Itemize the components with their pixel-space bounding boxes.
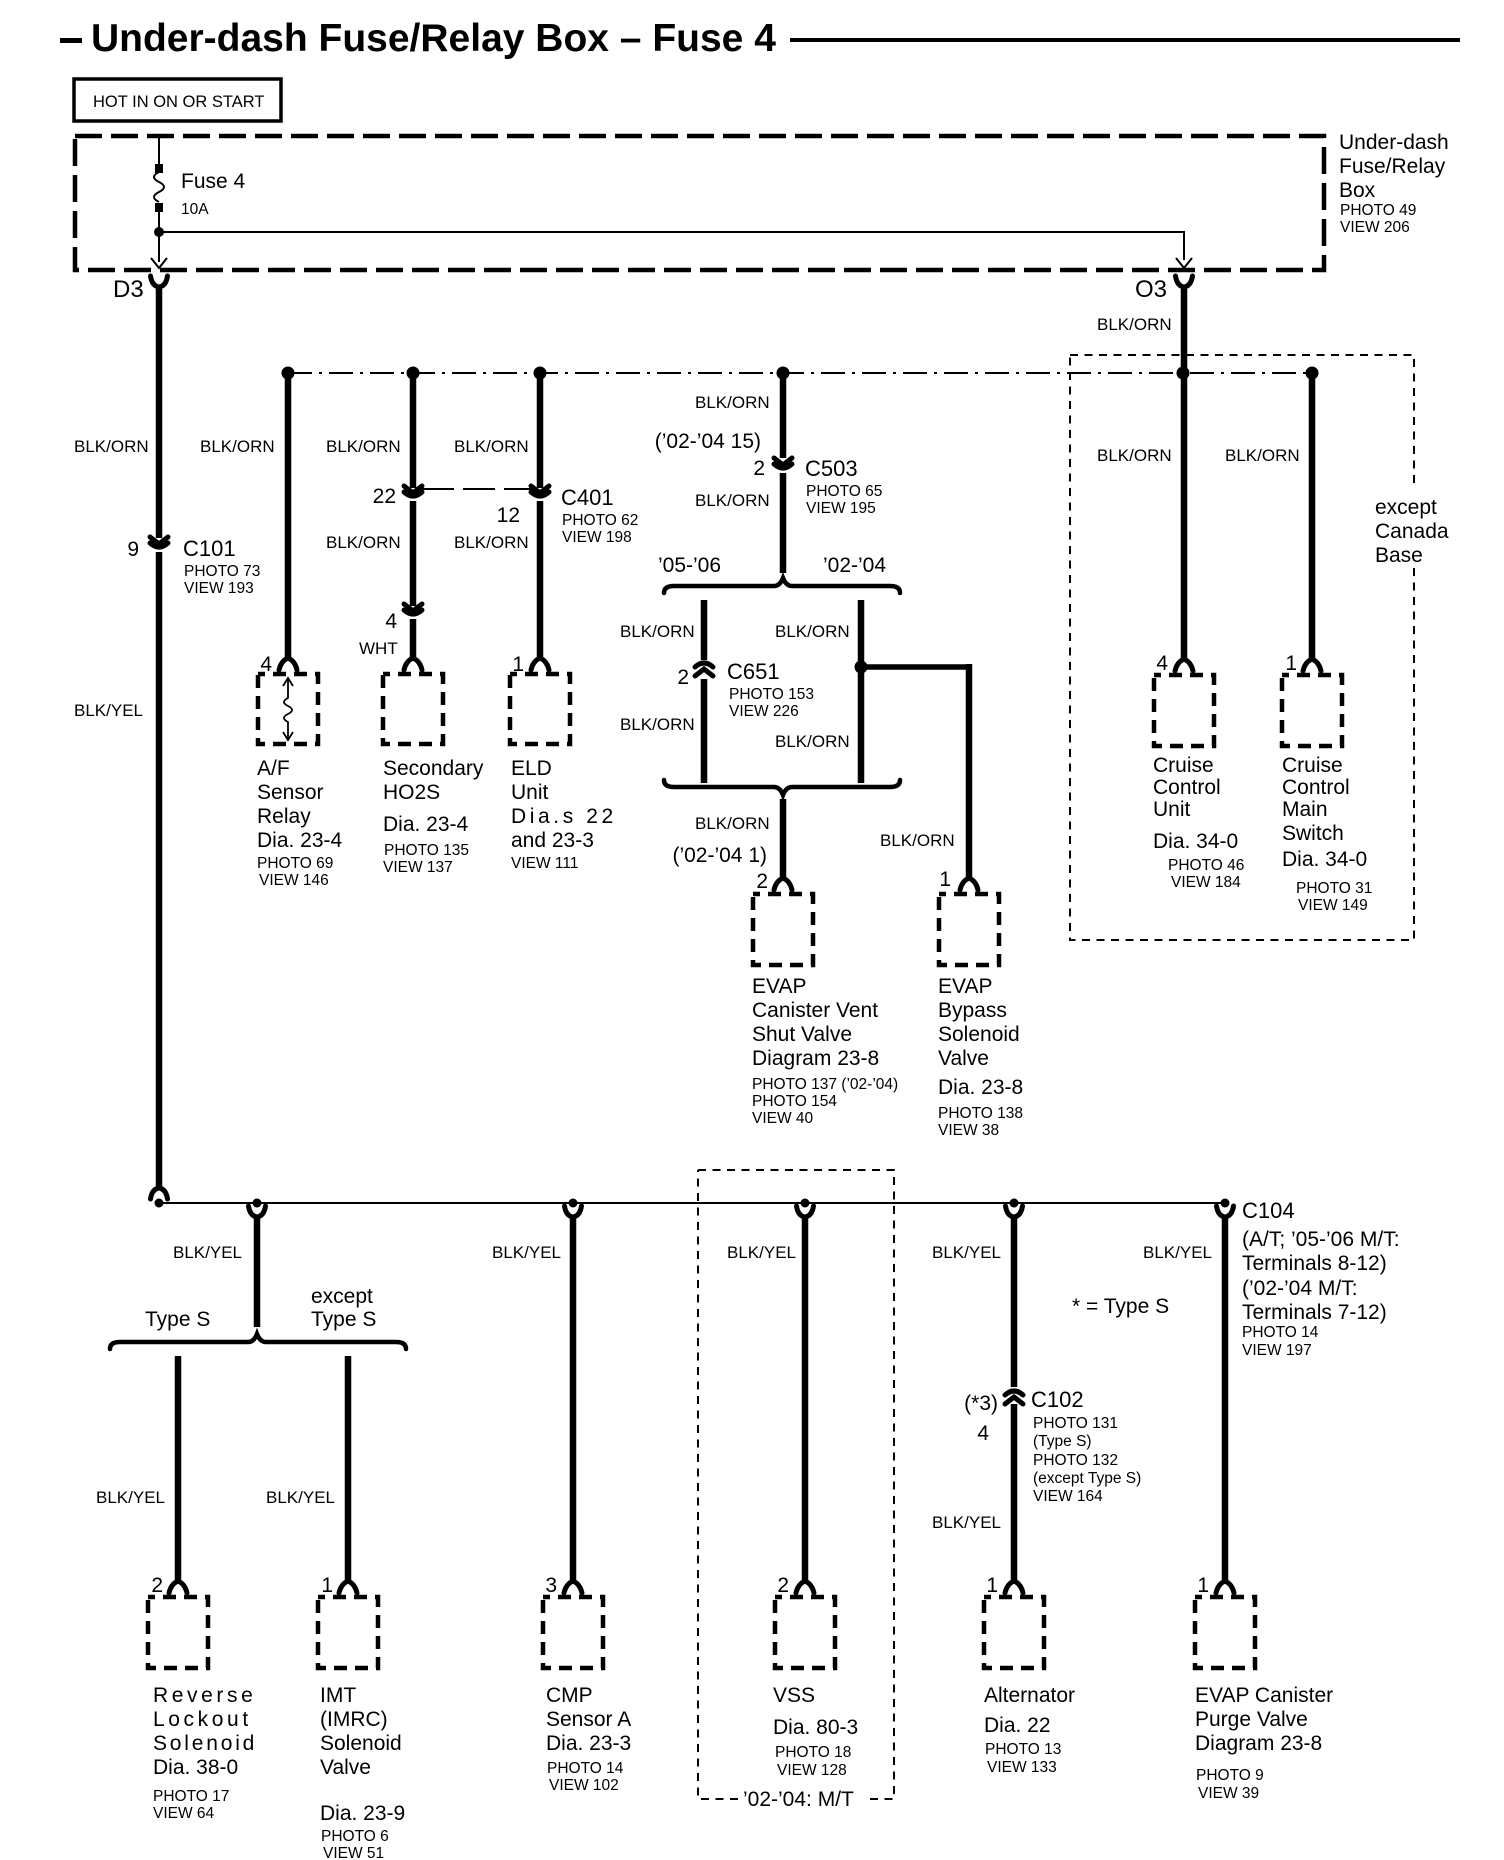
svg-text:VIEW 226: VIEW 226 <box>729 703 799 720</box>
svg-text:Lockout: Lockout <box>153 1708 252 1731</box>
svg-text:PHOTO 17: PHOTO 17 <box>153 1788 229 1805</box>
svg-text:(Type S): (Type S) <box>1033 1433 1092 1450</box>
wire to reverse lockout solenoid <box>175 1356 182 1582</box>
svg-text:C101: C101 <box>183 536 236 561</box>
svg-text:Dia. 80-3: Dia. 80-3 <box>773 1716 858 1739</box>
svg-text:Dia. 23-9: Dia. 23-9 <box>320 1802 405 1825</box>
svg-text:BLK/ORN: BLK/ORN <box>454 533 529 552</box>
connector 4 symbol <box>404 604 422 614</box>
svg-text:* = Type S: * = Type S <box>1072 1295 1169 1318</box>
TITLE <box>60 17 1460 60</box>
svg-text:PHOTO 14: PHOTO 14 <box>547 1760 624 1777</box>
svg-text:(’02-’04 M/T:: (’02-’04 M/T: <box>1242 1277 1358 1300</box>
wire ELD lower <box>537 501 544 658</box>
node typeS branch <box>253 1199 262 1208</box>
svg-text:BLK/YEL: BLK/YEL <box>173 1243 242 1262</box>
wire alternator lower <box>1011 1404 1018 1582</box>
connector 22 symbol <box>404 486 422 496</box>
svg-text:PHOTO 137 (’02-’04): PHOTO 137 (’02-’04) <box>752 1076 898 1093</box>
svg-text:1: 1 <box>986 1574 998 1597</box>
under-dash fuse/relay box label <box>1339 131 1449 236</box>
svg-text:EVAP Canister: EVAP Canister <box>1195 1684 1333 1707</box>
svg-text:(’02-’04 1): (’02-’04 1) <box>672 844 767 867</box>
svg-text:VIEW 111: VIEW 111 <box>511 855 578 872</box>
dashed link line to C401 <box>422 488 532 490</box>
connector C651 symbol <box>695 660 713 679</box>
title dash <box>60 38 82 43</box>
entry connector ELD <box>531 658 549 670</box>
junction node below fuse <box>154 227 164 237</box>
svg-text:C102: C102 <box>1031 1387 1084 1412</box>
svg-text:BLK/ORN: BLK/ORN <box>1225 446 1300 465</box>
svg-text:PHOTO 131: PHOTO 131 <box>1033 1415 1118 1432</box>
svg-text:PHOTO 46: PHOTO 46 <box>1168 857 1244 874</box>
wire node to O3 (thin feed inside box) <box>159 232 1184 260</box>
svg-text:IMT: IMT <box>320 1684 356 1707</box>
pin D3 connector <box>151 276 168 287</box>
svg-text:PHOTO 14: PHOTO 14 <box>1242 1324 1319 1341</box>
wire D3 down (BLK/YEL lower) <box>156 552 163 1188</box>
svg-text:Base: Base <box>1375 544 1423 567</box>
bottom feed line <box>159 1202 1225 1204</box>
connector C101 symbol <box>150 537 168 547</box>
connector C503 symbol <box>774 458 792 468</box>
svg-text:2: 2 <box>777 1574 789 1597</box>
svg-text:BLK/ORN: BLK/ORN <box>620 622 695 641</box>
wire to EVAP canister vent shut valve <box>780 799 787 878</box>
svg-text:Dia. 23-4: Dia. 23-4 <box>383 813 469 836</box>
connector C104 label <box>1242 1198 1400 1359</box>
split brace Type S <box>110 1334 406 1349</box>
svg-text:Valve: Valve <box>320 1756 371 1779</box>
svg-text:C651: C651 <box>727 659 780 684</box>
wire tap to bypass valve <box>864 664 969 670</box>
svg-text:Valve: Valve <box>938 1047 989 1070</box>
CMP sensor A box <box>543 1597 603 1668</box>
svg-text:Dia. 23-8: Dia. 23-8 <box>938 1076 1023 1099</box>
wire down to split <box>254 1217 261 1327</box>
'02-'04 M/T dashed box (VSS) <box>698 1170 894 1799</box>
svg-text:EVAP: EVAP <box>752 975 806 998</box>
ELD unit label <box>511 757 617 872</box>
svg-text:C503: C503 <box>805 456 858 481</box>
entry connector reverse <box>169 1581 187 1593</box>
under-dash fuse/relay box (dashed) <box>75 136 1324 270</box>
svg-text:Unit: Unit <box>511 781 549 804</box>
wire to EVAP bypass solenoid valve <box>966 664 973 878</box>
entry connector cruise unit <box>1175 659 1193 671</box>
svg-text:PHOTO 153: PHOTO 153 <box>729 686 814 703</box>
HOT IN ON OR START box <box>74 79 281 121</box>
EVAP canister vent shut valve label <box>752 975 898 1127</box>
svg-text:C401: C401 <box>561 485 614 510</box>
BOTTOM <box>96 1170 1400 1860</box>
title rule line <box>790 38 1460 42</box>
connector C101 label <box>183 536 260 597</box>
svg-text:Type S: Type S <box>145 1308 210 1331</box>
entry connector IMT <box>339 1581 357 1593</box>
svg-text:PHOTO 132: PHOTO 132 <box>1033 1452 1118 1469</box>
svg-text:PHOTO 13: PHOTO 13 <box>985 1741 1061 1758</box>
wire C503 upper <box>780 373 787 458</box>
svg-text:1: 1 <box>321 1574 333 1597</box>
wire C503 lower <box>780 473 787 573</box>
merge brace lower <box>664 780 900 795</box>
entry connector alternator <box>1005 1581 1023 1593</box>
svg-text:Diagram 23-8: Diagram 23-8 <box>752 1047 879 1070</box>
fuse F4 element squiggle <box>154 172 164 202</box>
svg-text:’02-’04: M/T: ’02-’04: M/T <box>743 1788 854 1811</box>
ELD unit box <box>510 674 570 744</box>
node alternator <box>1010 1199 1019 1208</box>
svg-text:O3: O3 <box>1135 276 1167 303</box>
svg-text:PHOTO 69: PHOTO 69 <box>257 855 333 872</box>
bus node A/F <box>282 367 295 380</box>
RIGHTSECTION <box>1070 287 1449 940</box>
svg-text:Sensor A: Sensor A <box>546 1708 631 1731</box>
label except Type S <box>311 1285 376 1331</box>
svg-text:Cruise: Cruise <box>1153 754 1214 777</box>
svg-text:PHOTO 65: PHOTO 65 <box>806 483 882 500</box>
svg-text:’05-’06: ’05-’06 <box>658 554 721 577</box>
svg-text:ELD: ELD <box>511 757 552 780</box>
svg-text:VIEW 102: VIEW 102 <box>549 1777 619 1794</box>
svg-text:VSS: VSS <box>773 1684 815 1707</box>
svg-text:PHOTO 73: PHOTO 73 <box>184 563 260 580</box>
wire to VSS <box>802 1217 809 1582</box>
svg-text:D3: D3 <box>113 276 144 303</box>
A/F sensor relay label <box>257 757 343 889</box>
svg-text:BLK/ORN: BLK/ORN <box>775 622 850 641</box>
A/F relay coil symbol <box>283 678 293 740</box>
svg-text:4: 4 <box>977 1422 989 1445</box>
svg-text:HO2S: HO2S <box>383 781 440 804</box>
cruise control unit box <box>1154 675 1214 746</box>
svg-text:Solenoid: Solenoid <box>938 1023 1020 1046</box>
svg-text:EVAP: EVAP <box>938 975 992 998</box>
svg-text:1: 1 <box>1197 1574 1209 1597</box>
svg-text:Dia. 34-0: Dia. 34-0 <box>1282 848 1367 871</box>
svg-text:Solenoid: Solenoid <box>153 1732 257 1755</box>
svg-text:4: 4 <box>385 610 397 633</box>
svg-text:12: 12 <box>497 504 520 527</box>
bus node cruise unit <box>1177 367 1190 380</box>
svg-text:4: 4 <box>1156 652 1168 675</box>
svg-text:except: except <box>1375 496 1437 519</box>
node EVAP purge <box>1221 1199 1230 1208</box>
svg-text:PHOTO 31: PHOTO 31 <box>1296 880 1372 897</box>
svg-text:(*3): (*3) <box>964 1392 998 1415</box>
svg-text:Dia. 23-3: Dia. 23-3 <box>546 1732 631 1755</box>
svg-text:1: 1 <box>939 868 951 891</box>
svg-text:Secondary: Secondary <box>383 757 484 780</box>
svg-text:VIEW 164: VIEW 164 <box>1033 1488 1103 1505</box>
MIDDLE <box>620 373 1023 1139</box>
fuse F4 terminal square bottom <box>155 203 163 212</box>
svg-text:BLK/ORN: BLK/ORN <box>326 533 401 552</box>
wire HO2S lower <box>410 619 417 658</box>
svg-text:Dia. 38-0: Dia. 38-0 <box>153 1756 238 1779</box>
svg-text:’02-’04: ’02-’04 <box>823 554 886 577</box>
arrow into O3 <box>1176 258 1192 268</box>
svg-text:BLK/ORN: BLK/ORN <box>775 732 850 751</box>
svg-text:Dia.s 22: Dia.s 22 <box>511 805 617 828</box>
svg-text:VIEW 133: VIEW 133 <box>987 1759 1057 1776</box>
cruise control main switch label <box>1282 754 1372 914</box>
tap connector CMP <box>565 1206 582 1217</box>
svg-text:VIEW 206: VIEW 206 <box>1340 219 1410 236</box>
tap connector VSS <box>797 1206 814 1217</box>
svg-text:(IMRC): (IMRC) <box>320 1708 388 1731</box>
svg-text:Dia. 23-4: Dia. 23-4 <box>257 829 343 852</box>
node CMP <box>569 1199 578 1208</box>
wire to A/F sensor relay <box>285 373 292 658</box>
svg-text:BLK/YEL: BLK/YEL <box>932 1243 1001 1262</box>
svg-text:Alternator: Alternator <box>984 1684 1075 1707</box>
svg-text:Terminals 7-12): Terminals 7-12) <box>1242 1301 1387 1324</box>
svg-text:Solenoid: Solenoid <box>320 1732 402 1755</box>
pin O3 connector <box>1176 276 1193 287</box>
dash-dot bus line <box>288 372 1313 374</box>
IMT solenoid valve box <box>318 1597 378 1668</box>
split brace upper <box>664 578 900 593</box>
svg-text:Terminals 8-12): Terminals 8-12) <box>1242 1252 1387 1275</box>
svg-text:VIEW 51: VIEW 51 <box>323 1845 384 1860</box>
svg-text:VIEW 39: VIEW 39 <box>1198 1785 1259 1802</box>
A/F sensor relay box <box>258 674 318 744</box>
entry connector VSS <box>796 1581 814 1593</box>
tap connector typeS <box>249 1206 266 1217</box>
svg-text:BLK/YEL: BLK/YEL <box>727 1243 796 1262</box>
svg-text:BLK/ORN: BLK/ORN <box>200 437 275 456</box>
EVAP canister purge valve box <box>1195 1597 1255 1668</box>
svg-text:BLK/ORN: BLK/ORN <box>695 491 770 510</box>
label except Canada Base <box>1375 496 1449 567</box>
svg-text:Reverse: Reverse <box>153 1684 256 1707</box>
svg-text:BLK/YEL: BLK/YEL <box>74 701 143 720</box>
svg-text:and 23-3: and 23-3 <box>511 829 594 852</box>
connector C102 symbol <box>1005 1388 1023 1404</box>
svg-text:CMP: CMP <box>546 1684 593 1707</box>
svg-text:VIEW 40: VIEW 40 <box>752 1110 814 1127</box>
entry connector vent valve <box>774 878 792 890</box>
svg-text:Relay: Relay <box>257 805 311 828</box>
wire alternator upper <box>1011 1217 1018 1387</box>
svg-text:Sensor: Sensor <box>257 781 324 804</box>
svg-text:Main: Main <box>1282 798 1328 821</box>
svg-text:PHOTO 49: PHOTO 49 <box>1340 202 1416 219</box>
wire to ELD <box>537 373 544 488</box>
wire fuse to node <box>158 212 160 262</box>
entry connector HO2S <box>404 658 422 670</box>
connector C401 label <box>561 485 638 546</box>
wire to EVAP purge valve <box>1222 1217 1229 1582</box>
svg-text:10A: 10A <box>181 201 209 218</box>
svg-text:Purge Valve: Purge Valve <box>1195 1708 1308 1731</box>
svg-text:VIEW 197: VIEW 197 <box>1242 1342 1312 1359</box>
svg-text:BLK/ORN: BLK/ORN <box>695 814 770 833</box>
svg-text:VIEW 193: VIEW 193 <box>184 580 254 597</box>
FUSEBOX <box>74 79 1449 303</box>
svg-text:9: 9 <box>127 538 139 561</box>
wire from box top to fuse <box>158 136 160 166</box>
secondary HO2S label <box>383 757 484 876</box>
svg-text:VIEW 137: VIEW 137 <box>383 859 453 876</box>
wire O3 to cruise control unit <box>1181 287 1188 659</box>
svg-text:(except Type S): (except Type S) <box>1033 1470 1141 1487</box>
wire to cruise control main switch <box>1309 373 1316 659</box>
wire to HO2S upper <box>410 373 417 488</box>
svg-text:1: 1 <box>1285 652 1297 675</box>
svg-text:Dia. 34-0: Dia. 34-0 <box>1153 830 1238 853</box>
svg-text:(’02-’04 15): (’02-’04 15) <box>655 430 761 453</box>
connector C102 label <box>1031 1387 1141 1505</box>
secondary HO2S box <box>383 674 443 744</box>
fuse F4 terminal square top <box>155 164 163 173</box>
svg-text:Canada: Canada <box>1375 520 1449 543</box>
CMP sensor A label <box>546 1684 631 1794</box>
svg-text:BLK/ORN: BLK/ORN <box>880 831 955 850</box>
svg-text:PHOTO 6: PHOTO 6 <box>321 1828 389 1845</box>
svg-text:Type S: Type S <box>311 1308 376 1331</box>
alternator box <box>984 1597 1044 1668</box>
wire to CMP sensor <box>570 1217 577 1582</box>
entry connector CMP <box>564 1581 582 1593</box>
bus node cruise switch <box>1306 367 1319 380</box>
cruise control unit label <box>1153 754 1244 891</box>
svg-text:Switch: Switch <box>1282 822 1344 845</box>
svg-text:VIEW 128: VIEW 128 <box>777 1762 847 1779</box>
bus node HO2S <box>407 367 420 380</box>
svg-text:BLK/ORN: BLK/ORN <box>620 715 695 734</box>
svg-text:PHOTO 138: PHOTO 138 <box>938 1105 1023 1122</box>
svg-text:2: 2 <box>151 1574 163 1597</box>
UPPERWIRES <box>74 287 1319 1199</box>
bus node ELD <box>534 367 547 380</box>
svg-text:Control: Control <box>1282 776 1350 799</box>
branch wire '05-'06 <box>701 600 708 783</box>
EVAP canister purge valve label <box>1195 1684 1333 1802</box>
svg-text:Cruise: Cruise <box>1282 754 1343 777</box>
arrow into D3 <box>151 258 167 268</box>
alternator label <box>984 1684 1075 1776</box>
svg-text:Canister Vent: Canister Vent <box>752 999 878 1022</box>
svg-text:Diagram 23-8: Diagram 23-8 <box>1195 1732 1322 1755</box>
svg-text:BLK/ORN: BLK/ORN <box>1097 446 1172 465</box>
svg-text:2: 2 <box>677 666 689 689</box>
EVAP bypass solenoid valve box <box>939 894 999 965</box>
svg-text:Bypass: Bypass <box>938 999 1007 1022</box>
branch wire '02-'04 <box>858 600 865 783</box>
svg-text:HOT IN ON OR START: HOT IN ON OR START <box>93 93 264 111</box>
bus node C503 <box>777 367 790 380</box>
svg-text:VIEW 184: VIEW 184 <box>1171 874 1241 891</box>
svg-text:PHOTO 62: PHOTO 62 <box>562 512 638 529</box>
svg-text:PHOTO 18: PHOTO 18 <box>775 1744 851 1761</box>
svg-text:Under-dash: Under-dash <box>1339 131 1449 154</box>
EVAP bypass solenoid valve label <box>938 975 1023 1139</box>
svg-text:BLK/YEL: BLK/YEL <box>932 1513 1001 1532</box>
VSS box <box>775 1597 835 1668</box>
svg-text:VIEW 64: VIEW 64 <box>153 1805 215 1822</box>
EVAP canister vent shut valve box <box>753 894 813 965</box>
svg-text:Box: Box <box>1339 179 1376 202</box>
svg-text:2: 2 <box>756 870 768 893</box>
entry connector bypass valve <box>960 878 978 890</box>
svg-text:WHT: WHT <box>359 639 398 658</box>
svg-text:(A/T; ’05-’06 M/T:: (A/T; ’05-’06 M/T: <box>1242 1228 1400 1251</box>
entry connector A/F <box>279 658 297 670</box>
svg-text:BLK/YEL: BLK/YEL <box>266 1488 335 1507</box>
entry connector purge <box>1216 1581 1234 1593</box>
svg-text:except: except <box>311 1285 373 1308</box>
reverse lockout solenoid box <box>148 1597 208 1668</box>
connector C503 label <box>805 456 882 517</box>
except Canada Base dashed box <box>1070 355 1414 940</box>
svg-text:BLK/YEL: BLK/YEL <box>1143 1243 1212 1262</box>
svg-text:Unit: Unit <box>1153 798 1191 821</box>
svg-text:C104: C104 <box>1242 1198 1295 1223</box>
svg-text:22: 22 <box>373 485 396 508</box>
svg-text:2: 2 <box>753 457 765 480</box>
svg-text:BLK/ORN: BLK/ORN <box>326 437 401 456</box>
wire to IMT solenoid valve <box>345 1356 352 1582</box>
connector C401 symbol <box>531 486 549 496</box>
wire end skirt at bottom of main wire <box>151 1188 168 1199</box>
svg-text:PHOTO 135: PHOTO 135 <box>384 842 469 859</box>
junction node to bypass valve <box>855 661 868 674</box>
wire HO2S middle <box>410 501 417 606</box>
svg-text:VIEW 38: VIEW 38 <box>938 1122 999 1139</box>
svg-text:BLK/ORN: BLK/ORN <box>695 393 770 412</box>
svg-text:PHOTO 9: PHOTO 9 <box>1196 1767 1264 1784</box>
cruise control main switch box <box>1282 675 1342 746</box>
svg-text:BLK/YEL: BLK/YEL <box>96 1488 165 1507</box>
entry connector cruise switch <box>1303 659 1321 671</box>
tap connector EVAP purge <box>1217 1206 1234 1217</box>
svg-text:VIEW 198: VIEW 198 <box>562 529 632 546</box>
svg-text:Shut Valve: Shut Valve <box>752 1023 852 1046</box>
svg-text:BLK/ORN: BLK/ORN <box>74 437 149 456</box>
svg-text:VIEW 195: VIEW 195 <box>806 500 876 517</box>
svg-text:BLK/ORN: BLK/ORN <box>1097 315 1172 334</box>
svg-text:VIEW 146: VIEW 146 <box>259 872 329 889</box>
svg-text:BLK/YEL: BLK/YEL <box>492 1243 561 1262</box>
svg-text:Under-dash Fuse/Relay Box – Fu: Under-dash Fuse/Relay Box – Fuse 4 <box>91 17 776 60</box>
svg-text:Fuse 4: Fuse 4 <box>181 170 246 193</box>
IMT solenoid valve label <box>320 1684 405 1860</box>
node VSS <box>801 1199 810 1208</box>
svg-text:Fuse/Relay: Fuse/Relay <box>1339 155 1446 178</box>
svg-text:3: 3 <box>545 1574 557 1597</box>
svg-text:BLK/ORN: BLK/ORN <box>454 437 529 456</box>
reverse lockout solenoid label <box>153 1684 257 1822</box>
connector C651 label <box>727 659 814 720</box>
tap connector alternator <box>1006 1206 1023 1217</box>
node main <box>155 1199 164 1208</box>
svg-text:Dia. 22: Dia. 22 <box>984 1714 1051 1737</box>
svg-text:Control: Control <box>1153 776 1221 799</box>
svg-text:VIEW 149: VIEW 149 <box>1298 897 1368 914</box>
svg-text:A/F: A/F <box>257 757 290 780</box>
wire D3 down (BLK/ORN upper) <box>156 287 163 538</box>
VSS label <box>773 1684 858 1779</box>
svg-text:PHOTO 154: PHOTO 154 <box>752 1093 837 1110</box>
